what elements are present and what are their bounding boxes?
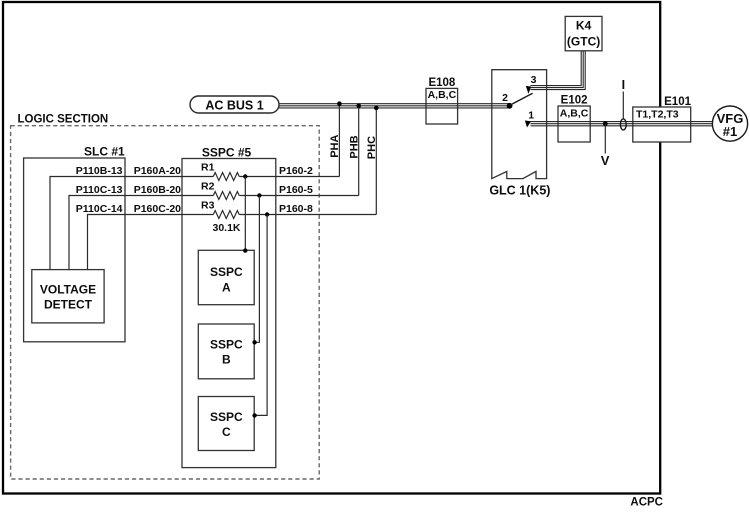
svg-text:P160B-20: P160B-20: [134, 184, 181, 196]
node R1 output junction: [243, 174, 247, 178]
svg-text:R1: R1: [201, 161, 215, 173]
node AC BUS 1: [190, 96, 279, 113]
svg-text:SSPC: SSPC: [210, 337, 243, 351]
wire row 1 P110B-13 to PHA with resistor R1: [50, 173, 339, 270]
svg-text:VOLTAGE: VOLTAGE: [40, 282, 96, 296]
svg-text:P160A-20: P160A-20: [134, 165, 181, 177]
current sensor ellipse: [620, 119, 626, 130]
svg-text:1: 1: [528, 110, 534, 122]
wire R2 junction to SSPC B: [254, 196, 259, 343]
svg-text:SLC #1: SLC #1: [84, 145, 125, 159]
svg-text:AC BUS 1: AC BUS 1: [205, 98, 263, 112]
node V tap dot: [603, 121, 608, 126]
svg-text:SSPC: SSPC: [210, 265, 243, 279]
wire PHC tap: [375, 108, 377, 215]
svg-text:K4: K4: [576, 19, 592, 33]
svg-text:DETECT: DETECT: [44, 297, 93, 311]
node PHC junction dot: [374, 106, 379, 111]
svg-text:P110B-13: P110B-13: [76, 165, 123, 177]
SLC #1 box: [24, 145, 125, 342]
wire R3 junction to SSPC C: [254, 215, 267, 416]
GLC switch blade: [510, 93, 533, 105]
svg-text:SSPC #5: SSPC #5: [202, 145, 252, 159]
node R2 output junction: [257, 193, 261, 197]
node dot at SSPC A input: [243, 248, 247, 252]
wire R1 junction to SSPC A: [244, 177, 246, 251]
svg-text:LOGIC SECTION: LOGIC SECTION: [18, 114, 109, 126]
svg-text:P160-5: P160-5: [279, 184, 313, 196]
svg-text:I: I: [622, 78, 625, 92]
svg-text:(GTC): (GTC): [567, 35, 600, 49]
node dot at SSPC C input: [252, 413, 256, 417]
svg-text:3: 3: [531, 74, 537, 86]
svg-text:GLC 1(K5): GLC 1(K5): [489, 184, 550, 198]
svg-text:P160-8: P160-8: [279, 203, 313, 215]
wire 3-phase bus GLC pin 1 to VFG: [531, 122, 713, 126]
wire PHA tap: [338, 104, 340, 177]
svg-text:V: V: [601, 153, 610, 168]
wire row 3 P110C-14 to PHC with resistor R3: [88, 211, 377, 270]
wire row 2 P110C-13 to PHB with resistor R2: [69, 192, 359, 270]
svg-text:R3: R3: [201, 199, 215, 211]
svg-text:A,B,C: A,B,C: [560, 107, 589, 119]
connector E101 box: [633, 96, 692, 142]
SSPC B box: [198, 324, 254, 379]
GLC pin 3 contact arrow: [526, 86, 531, 94]
connector E108 box: [426, 77, 458, 124]
wire I lead: [622, 92, 624, 120]
svg-text:T1,T2,T3: T1,T2,T3: [636, 109, 679, 121]
svg-text:PHB: PHB: [348, 135, 360, 158]
svg-text:A: A: [222, 281, 231, 295]
node GLC pin 2 dot: [507, 103, 513, 109]
svg-text:P160C-20: P160C-20: [134, 203, 181, 215]
contactor GLC 1(K5) box: [489, 70, 550, 198]
node PHB junction dot: [356, 104, 361, 109]
SSPC #5 box: [182, 145, 276, 467]
svg-text:E108: E108: [428, 77, 455, 89]
svg-text:SSPC: SSPC: [210, 410, 243, 424]
wire V tap: [604, 124, 606, 154]
svg-text:B: B: [222, 352, 231, 366]
node R3 output junction: [265, 212, 269, 216]
svg-text:E102: E102: [561, 95, 588, 107]
svg-text:PHC: PHC: [366, 136, 378, 159]
SSPC A box: [198, 250, 254, 304]
wire PHB tap: [358, 106, 360, 196]
SSPC C box: [198, 397, 254, 451]
voltage detect U1: [32, 270, 104, 323]
wire 3-phase bus AC BUS 1 to GLC pin 2: [279, 104, 510, 108]
svg-text:R2: R2: [201, 180, 215, 192]
svg-text:E101: E101: [664, 96, 691, 108]
LOGIC SECTION dashed boundary: [11, 126, 320, 479]
svg-text:C: C: [222, 425, 231, 439]
svg-text:2: 2: [502, 92, 508, 104]
svg-text:ACPC: ACPC: [630, 497, 663, 509]
svg-text:A,B,C: A,B,C: [428, 89, 457, 101]
svg-text:P110C-14: P110C-14: [76, 203, 123, 215]
node PHA junction dot: [337, 101, 342, 106]
generator VFG #1: [712, 106, 747, 141]
svg-text:PHA: PHA: [329, 135, 341, 158]
svg-text:#1: #1: [723, 124, 737, 139]
wire 3-phase bus GLC pin 3 to K4: [531, 51, 586, 90]
relay K4 (GTC) box: [565, 16, 602, 50]
GLC pin 1 contact arrow: [525, 121, 531, 128]
svg-text:P110C-13: P110C-13: [76, 184, 123, 196]
node dot at SSPC B input: [252, 340, 256, 344]
connector E102 box: [558, 95, 590, 142]
svg-text:30.1K: 30.1K: [212, 222, 240, 234]
svg-text:P160-2: P160-2: [279, 165, 313, 177]
